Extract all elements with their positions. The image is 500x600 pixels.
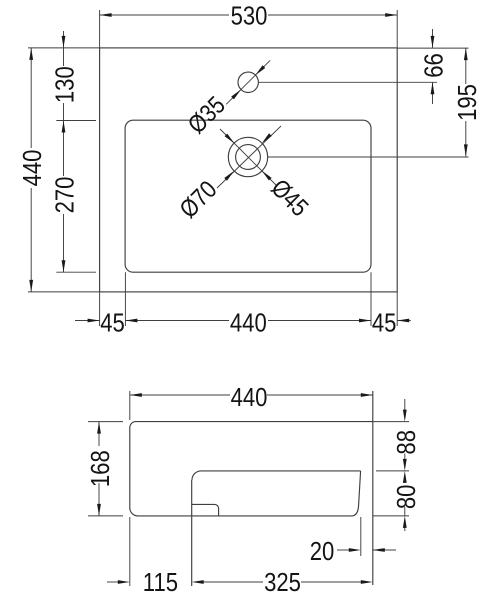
arrow 88 bottom: [403, 471, 407, 483]
svg-text:530: 530: [231, 2, 268, 31]
arrow 440 left bottom: [29, 280, 33, 292]
dimension 66 line: [432, 29, 434, 48]
arrow 20 right: [373, 548, 385, 552]
extension line at bowl bottom for 270: [56, 271, 96, 273]
svg-text:440: 440: [230, 309, 267, 338]
arrow 66 top: [431, 36, 435, 48]
svg-text:66: 66: [420, 53, 449, 78]
side view right wall (basin inner wall, tapered): [353, 471, 361, 516]
leader diagonal NE-SW through tap hole: [217, 126, 281, 188]
extension line left for side 440: [129, 391, 131, 420]
dimension 88/80 line: [404, 399, 406, 411]
svg-text:45: 45: [372, 309, 397, 338]
arrow tap hole NE: [261, 133, 272, 144]
svg-text:270: 270: [51, 177, 80, 214]
extension line at bowl top for 130/270: [56, 120, 96, 122]
arrow bottom 45 right outer: [397, 319, 409, 323]
dimension 195 line: [465, 48, 467, 84]
arrow bottom 440 left: [125, 319, 137, 323]
leader line through D35 circle: [226, 60, 270, 104]
arrow 195 bottom: [464, 144, 468, 156]
dimension 130 line: [63, 31, 65, 48]
dimension 115/325 line: [107, 581, 119, 583]
svg-text:Ø70: Ø70: [174, 175, 222, 223]
arrow tap hole SE: [260, 169, 271, 180]
side view waste ledge detail: [192, 504, 219, 516]
dimension 168 line: [98, 422, 100, 446]
arrow 440 left top: [29, 48, 33, 60]
arrow tap hole SW: [224, 170, 235, 181]
svg-text:88: 88: [392, 430, 421, 455]
extension lines for 440 left: [28, 47, 100, 49]
svg-text:195: 195: [453, 84, 482, 121]
svg-text:168: 168: [86, 450, 115, 487]
arrow 115 right / 325 left: [192, 580, 204, 584]
arrow side 440 left: [130, 393, 142, 397]
arrow D35 lower-left: [231, 88, 242, 99]
arrow 530 left: [100, 13, 112, 17]
arrow tap hole NW: [225, 134, 236, 145]
svg-text:440: 440: [19, 150, 48, 187]
dimension 270 line: [63, 121, 65, 177]
arrow 325 right: [361, 580, 373, 584]
svg-text:80: 80: [392, 485, 421, 510]
arrow 270 top: [62, 121, 66, 133]
svg-text:325: 325: [264, 569, 301, 598]
arrow D35 upper-right: [254, 65, 265, 76]
basin inner bowl rounded rectangle (top view): [125, 120, 371, 272]
arrow 530 right: [385, 13, 397, 17]
arrow 130 top: [62, 36, 66, 48]
tap hole outer circle D70: [228, 137, 267, 176]
extension line top right for 195/66: [397, 47, 468, 49]
svg-text:20: 20: [310, 537, 335, 566]
arrow 168 bottom: [97, 504, 101, 516]
dimension 20 line: [337, 549, 350, 551]
side view outline: [130, 422, 373, 516]
arrow 270 bottom: [62, 260, 66, 272]
arrow bottom 440 right: [359, 319, 371, 323]
svg-text:130: 130: [51, 66, 80, 103]
extension lines for 168: [88, 421, 123, 423]
arrow 88 top: [403, 410, 407, 422]
svg-text:45: 45: [100, 309, 125, 338]
extension line from D35 centre: [259, 81, 437, 83]
side view basin interior left wall + extension down: [191, 480, 193, 586]
dimension 440 left line: [30, 48, 32, 148]
svg-text:440: 440: [231, 383, 268, 412]
arrow 168 top: [97, 422, 101, 434]
arrow 115 left: [118, 580, 130, 584]
arrow 80 bottom: [403, 516, 407, 528]
extension lines right of side view: [373, 421, 409, 423]
side view right edge + extensions: [372, 391, 374, 585]
arrow 20 left: [349, 548, 361, 552]
arrow bottom 45 left outer: [88, 319, 100, 323]
bottom chain dimension line 45/440/45: [75, 320, 100, 322]
dimension 530 line: [100, 14, 229, 16]
arrow 80 top: [403, 459, 407, 471]
extension lines for bottom chain: [99, 292, 101, 326]
side view basin interior top edge: [192, 471, 361, 480]
overflow hole circle D35: [238, 72, 258, 92]
extension line left bottom for side dims: [129, 517, 131, 586]
extension line for 20: [360, 517, 362, 556]
extension line from tap hole centre: [268, 156, 469, 158]
svg-text:115: 115: [143, 569, 178, 598]
arrow 195 top: [464, 48, 468, 60]
leader diagonal NW-SE through tap hole: [220, 129, 276, 185]
basin outer rim rectangle (top view): [100, 48, 398, 292]
dimension 440 (side view) line: [130, 394, 230, 396]
tap hole inner circle D45: [236, 145, 261, 170]
svg-text:Ø45: Ø45: [266, 173, 314, 221]
arrow 66 bottom: [431, 82, 435, 94]
extension lines for 530: [99, 10, 101, 48]
arrow side 440 right: [361, 393, 373, 397]
